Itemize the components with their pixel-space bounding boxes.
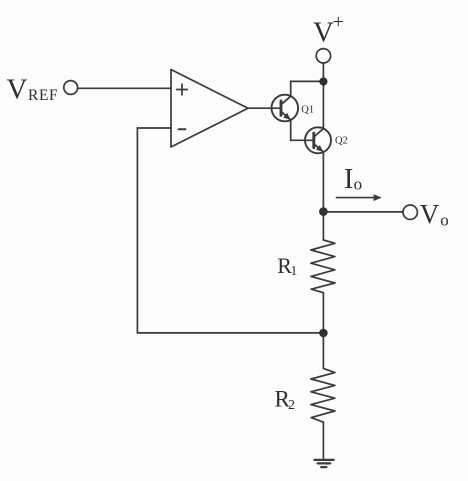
wire Q2 emitter down to output node — [322, 152, 324, 240]
wire feedback vertical — [136, 128, 138, 333]
svg-text:REF: REF — [28, 87, 58, 104]
wire V+ terminal down to Q2 collector — [322, 63, 324, 129]
label VREF — [7, 74, 59, 106]
wire Q1 collector up and right to node A — [291, 81, 324, 96]
wire R2 bottom to ground — [322, 422, 324, 460]
label R2 — [275, 387, 296, 413]
ground — [314, 460, 333, 467]
arrow Io current direction — [337, 194, 382, 201]
transistor Q2 — [305, 127, 331, 153]
label R1 — [277, 253, 297, 279]
svg-text:Q1: Q1 — [301, 104, 314, 115]
wire feedback to op-amp - input — [137, 127, 171, 129]
label Vo — [420, 199, 449, 230]
svg-text:+: + — [333, 11, 344, 33]
terminal V+ supply — [316, 49, 330, 63]
wire node B to R2 top — [322, 333, 324, 368]
resistor R2 — [311, 368, 335, 422]
terminal VREF input — [64, 81, 78, 95]
label V+ — [313, 11, 344, 48]
node output junction dot — [319, 207, 328, 216]
resistor R1 — [311, 240, 335, 293]
wire feedback bottom horizontal to node B — [137, 332, 323, 334]
terminal Vo output — [403, 205, 417, 219]
wire VREF to op-amp + input — [78, 87, 171, 89]
op-amp U1 — [171, 70, 248, 148]
svg-text:o: o — [354, 175, 363, 194]
svg-text:I: I — [344, 164, 353, 195]
svg-text:Q2: Q2 — [335, 136, 348, 147]
wire Q1 emitter down and right to Q2 base — [291, 120, 314, 140]
wire R1 bottom to node B — [322, 293, 324, 333]
node B junction dot — [319, 329, 328, 338]
svg-text:V: V — [7, 74, 28, 106]
svg-text:o: o — [440, 211, 449, 230]
node A junction dot — [319, 77, 327, 85]
wire output node to Vo terminal — [323, 211, 403, 213]
svg-text:V: V — [313, 16, 334, 48]
svg-text:2: 2 — [288, 398, 295, 413]
wire op-amp output to Q1 base — [248, 107, 281, 109]
svg-text:1: 1 — [290, 264, 297, 279]
transistor Q1 — [272, 95, 299, 122]
label Io — [344, 164, 362, 195]
svg-text:V: V — [420, 199, 440, 229]
